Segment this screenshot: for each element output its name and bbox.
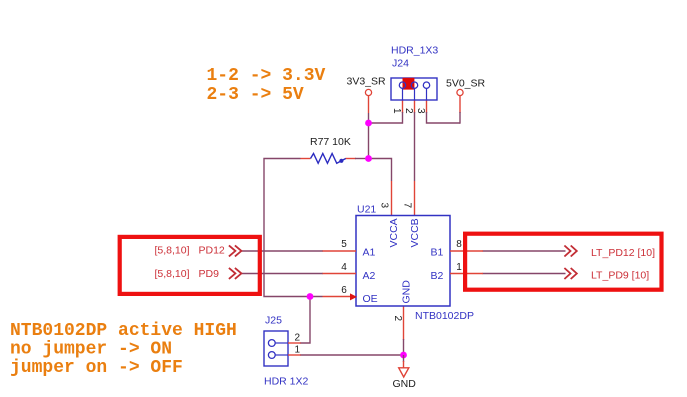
svg-text:1: 1 (456, 262, 462, 273)
svg-text:B1: B1 (431, 247, 444, 259)
J24 refdes (392, 58, 409, 70)
U21 pin name VCCA (388, 218, 400, 247)
terminal 5V0_SR (446, 78, 486, 96)
J25 pin number 1 (295, 345, 301, 356)
J25 pin 2 stub (288, 342, 301, 344)
svg-text:2-3 -> 5V: 2-3 -> 5V (207, 85, 304, 105)
net label [5,8,10] PD9 (155, 268, 220, 280)
svg-text:[5,8,10]: [5,8,10] (155, 268, 190, 280)
J25 part value HDR 1X2 (264, 376, 309, 388)
U21 pin number 4 (341, 262, 347, 273)
wire R77 right end to 3V3 rail junction (346, 158, 369, 160)
svg-text:3V3_SR: 3V3_SR (347, 76, 387, 88)
junction dot GND net (400, 352, 407, 359)
wire from J25 pin2 up to OE net (300, 297, 310, 344)
annotation box around PD12/PD9 (120, 237, 260, 294)
J24 pin 1 circle (399, 82, 405, 100)
wire B2 from U21 pin 1 to LT_PD9 chevron (483, 273, 566, 275)
wire B1 from U21 pin 8 to LT_PD12 chevron (483, 250, 566, 252)
U21 pin 1 stub (B2) (450, 273, 483, 275)
J24 pin number 1 (391, 108, 402, 114)
svg-text:U21: U21 (357, 204, 376, 216)
svg-text:2: 2 (403, 108, 414, 114)
svg-text:R77 10K: R77 10K (310, 136, 351, 148)
wire branch from 3V3 rail to J24 pin1 (369, 122, 403, 124)
connector J24 body (391, 78, 437, 100)
J24 pin 3 circle (423, 82, 429, 100)
net label LT_PD12 [10] (591, 247, 655, 259)
J25 pin 1 circle (268, 352, 288, 359)
note 1-2 -> 3.3V / 2-3 -> 5V (207, 66, 326, 105)
svg-text:B2: B2 (431, 270, 444, 282)
U21 pin number 5 (341, 239, 347, 250)
svg-text:4: 4 (341, 262, 347, 273)
J24 pin 2 circle (411, 82, 417, 100)
svg-text:6: 6 (341, 285, 347, 296)
off-page connector PD9 chevron (229, 268, 242, 279)
svg-text:5: 5 (341, 239, 347, 250)
svg-text:GND: GND (401, 280, 413, 304)
svg-text:2: 2 (295, 333, 301, 344)
U21 part value NTB0102DP (415, 310, 474, 322)
svg-text:1-2 -> 3.3V: 1-2 -> 3.3V (207, 66, 326, 86)
svg-text:5V0_SR: 5V0_SR (446, 78, 486, 90)
svg-text:1: 1 (391, 108, 402, 114)
svg-text:HDR_1X3: HDR_1X3 (391, 45, 438, 57)
svg-text:NTB0102DP: NTB0102DP (415, 310, 474, 322)
wire from R77 left end, down and right to OE pin (264, 159, 323, 297)
R77 value label (310, 136, 351, 148)
svg-text:OE: OE (363, 293, 378, 305)
note NTB0102DP active HIGH / no jumper -> ON / jumper on -> OFF (10, 321, 237, 378)
U21 pin number 6 (341, 285, 347, 296)
svg-text:GND: GND (393, 378, 417, 390)
terminal 3V3_SR (347, 76, 387, 96)
U21 pin name OE (363, 293, 378, 305)
svg-text:1: 1 (295, 345, 301, 356)
J25 pin 2 circle (268, 340, 288, 347)
U21 pin number 7 (402, 203, 413, 209)
junction dot 3V3 rail / J24 pin1 (365, 120, 372, 127)
net label LT_PD9 [10] (591, 270, 649, 282)
J24 pin number 3 (415, 108, 426, 114)
U21 pin number 3 (379, 203, 390, 209)
svg-text:jumper on -> OFF: jumper on -> OFF (10, 358, 183, 378)
op-amp U21 body (356, 216, 450, 307)
connector J25 body (264, 331, 288, 366)
U21 pin number 8 (456, 239, 462, 250)
wire A1 from PD12 chevron to U21 pin 5 (241, 250, 323, 252)
junction dot 3V3 rail / R77 (365, 155, 372, 162)
svg-text:VCCA: VCCA (388, 218, 400, 247)
wire J24 pin2 leg down to U21 VCCB pin 7 (414, 100, 416, 216)
svg-text:no jumper -> ON: no jumper -> ON (10, 340, 172, 360)
svg-text:HDR 1X2: HDR 1X2 (264, 376, 309, 388)
jumper shunt on J24 pins 1-2 (403, 78, 415, 90)
svg-text:J25: J25 (265, 315, 282, 327)
J25 pin 1 stub (288, 354, 301, 356)
svg-text:2: 2 (392, 316, 403, 322)
off-page connector PD12 chevron (229, 245, 242, 256)
svg-text:NTB0102DP active HIGH: NTB0102DP active HIGH (10, 321, 237, 341)
U21 pin name VCCB (409, 218, 421, 247)
J25 pin number 2 (295, 333, 301, 344)
U21 pin name A2 (363, 270, 376, 282)
U21 pin 5 stub (A1) (323, 250, 357, 252)
svg-text:3: 3 (415, 108, 426, 114)
wire U21 GND pin 2 down to GND junction (403, 306, 405, 355)
J25 refdes (265, 315, 282, 327)
U21 pin name A1 (363, 247, 376, 259)
svg-text:[5,8,10]: [5,8,10] (155, 245, 190, 257)
svg-text:PD12: PD12 (199, 245, 225, 257)
J24 pin number 2 (403, 108, 414, 114)
U21 pin number 2 (392, 316, 403, 322)
wire J24 pin1 leg (402, 100, 404, 124)
U21 pin number 1 (456, 262, 462, 273)
HDR_1X3 label (391, 45, 438, 57)
wire A2 from PD9 chevron to U21 pin 4 (241, 273, 323, 275)
svg-text:8: 8 (456, 239, 462, 250)
U21 pin name B1 (431, 247, 444, 259)
ground symbol (393, 355, 417, 390)
svg-text:A1: A1 (363, 247, 376, 259)
U21 pin 8 stub (B1) (450, 250, 483, 252)
U21 pin 4 stub (A2) (323, 273, 357, 275)
U21 pin name GND (401, 280, 413, 304)
off-page connector LT_PD9 chevron (564, 268, 576, 279)
annotation box around LT_PD12/LT_PD9 (465, 234, 661, 290)
svg-text:PD9: PD9 (199, 268, 220, 280)
U21 pin 6 stub (OE) with arrowhead (323, 293, 358, 300)
svg-text:3: 3 (379, 203, 390, 209)
svg-text:LT_PD9 [10]: LT_PD9 [10] (591, 270, 649, 282)
U21 pin name B2 (431, 270, 444, 282)
svg-text:VCCB: VCCB (409, 218, 421, 247)
wire J24 pin3 leg (426, 100, 460, 124)
wire 5V0_SR terminal down to J24 pin3 branch (459, 96, 461, 124)
svg-text:J24: J24 (392, 58, 409, 70)
wire from J25 pin1 right to GND junction (300, 354, 404, 356)
wire 3V3 rail vertical from 3V3_SR terminal down to R77 junction (368, 96, 370, 159)
svg-text:7: 7 (402, 203, 413, 209)
net label [5,8,10] PD12 (155, 245, 225, 257)
svg-text:A2: A2 (363, 270, 376, 282)
junction dot OE / J25 pin2 (307, 293, 314, 300)
wire from 3V3 rail junction right then down to U21 VCCA pin 3 (369, 159, 392, 216)
U21 refdes (357, 204, 376, 216)
svg-text:LT_PD12 [10]: LT_PD12 [10] (591, 247, 655, 259)
resistor R77 (301, 154, 346, 164)
off-page connector LT_PD12 chevron (564, 246, 576, 257)
